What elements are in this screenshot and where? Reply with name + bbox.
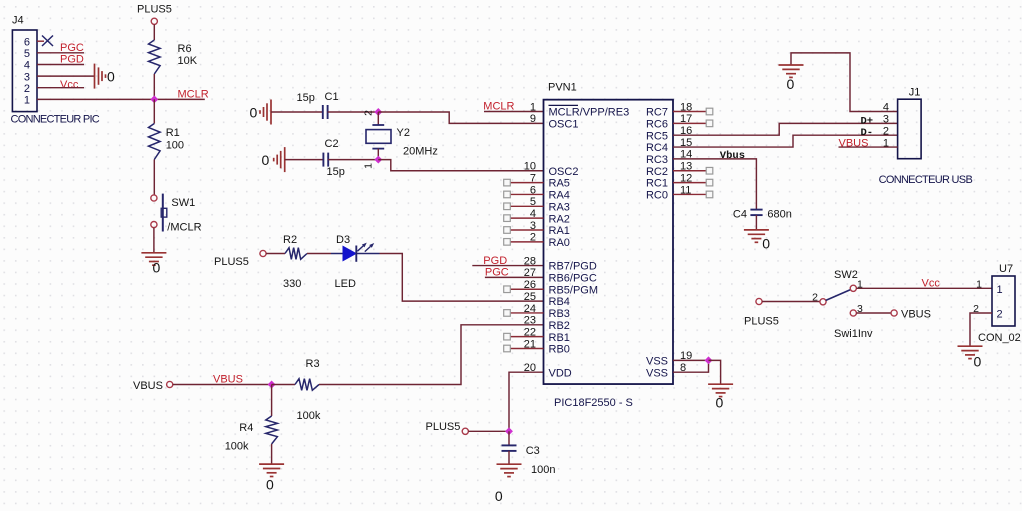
svg-text:D+: D+	[861, 115, 874, 127]
wire R3 to RB2 pin 23	[319, 325, 544, 385]
svg-text:OSC2: OSC2	[549, 166, 579, 178]
svg-text:15p: 15p	[327, 166, 345, 178]
wire PLUS5 to junction	[468, 430, 509, 432]
svg-text:SW2: SW2	[834, 269, 858, 281]
svg-text:PGC: PGC	[485, 267, 509, 279]
svg-text:R6: R6	[178, 43, 192, 55]
wire ground to C2	[285, 159, 324, 161]
svg-text:RC6: RC6	[646, 118, 668, 130]
svg-text:5: 5	[24, 48, 30, 60]
svg-text:PGD: PGD	[60, 54, 84, 66]
svg-text:VSS: VSS	[646, 367, 668, 379]
svg-text:RC2: RC2	[646, 166, 668, 178]
J4 pin 2 stub	[37, 87, 84, 89]
svg-text:LED: LED	[335, 278, 356, 290]
wire PLUS5 to SW2 pin 2	[762, 301, 820, 303]
node 2 junction (OSC1 net)	[374, 108, 382, 116]
ground at J1 shield	[779, 65, 804, 77]
J4 pin 5 wire (PGC)	[37, 52, 84, 54]
resistor R2	[285, 248, 307, 260]
svg-text:Vcc: Vcc	[60, 79, 79, 91]
svg-text:RC7: RC7	[646, 107, 668, 119]
svg-text:R2: R2	[283, 234, 297, 246]
svg-text:RB1: RB1	[549, 332, 570, 344]
unconnected pin 22 stub	[511, 336, 544, 338]
svg-text:PGD: PGD	[483, 255, 507, 267]
svg-text:RC0: RC0	[646, 190, 668, 202]
svg-text:Vbus: Vbus	[720, 150, 745, 162]
svg-text:4: 4	[883, 102, 889, 114]
svg-text:1: 1	[24, 95, 30, 107]
svg-text:VBUS: VBUS	[901, 308, 931, 320]
svg-text:RA5: RA5	[549, 178, 570, 190]
J4 pin 3 wire (Vcc)	[37, 75, 95, 77]
unconnected pin 3 stub	[511, 229, 544, 231]
ground below R4	[259, 464, 284, 476]
svg-text:0: 0	[762, 236, 770, 252]
connector J4 (CONNECTEUR PIC)	[11, 15, 100, 126]
LED D3	[331, 234, 380, 290]
IC PVN1 (PIC18F2550 - S)	[524, 82, 693, 410]
svg-text:U7: U7	[999, 263, 1013, 275]
capacitor C3	[502, 445, 517, 451]
svg-text:RB5/PGM: RB5/PGM	[549, 284, 599, 296]
unconnected pin 26 stub	[511, 288, 544, 290]
svg-text:1: 1	[530, 101, 536, 113]
wire PGC to pin 27	[485, 276, 544, 278]
svg-text:0: 0	[495, 488, 503, 504]
wire MCLR node to R1	[153, 99, 155, 123]
capacitor C1	[323, 105, 328, 119]
svg-text:RB6/PGC: RB6/PGC	[549, 273, 597, 285]
J4 pin 1 wire to MCLR node	[37, 98, 205, 100]
wire RC5 pin 16 to J1 pin 3 (D+)	[673, 123, 898, 135]
wire ground to J1 pin 4	[791, 53, 898, 112]
ground below C3	[497, 464, 522, 476]
unconnected pin 24 stub	[511, 312, 544, 314]
svg-text:PLUS5: PLUS5	[214, 256, 249, 268]
svg-text:4: 4	[24, 60, 30, 72]
ground on J4 pin 3	[95, 64, 106, 89]
wire junction to C3	[508, 431, 510, 445]
svg-text:10: 10	[524, 161, 536, 173]
svg-text:1: 1	[363, 163, 375, 169]
svg-text:2: 2	[24, 83, 30, 95]
svg-text:RC4: RC4	[646, 142, 668, 154]
connector U7 (CON_02)	[973, 263, 1021, 344]
unconnected pin 6 stub	[511, 193, 544, 195]
svg-text:CONNECTEUR USB: CONNECTEUR USB	[879, 174, 973, 186]
svg-text:0: 0	[153, 260, 161, 276]
svg-text:0: 0	[787, 76, 795, 92]
wire C4 to ground	[755, 215, 757, 230]
svg-text:RB4: RB4	[549, 296, 570, 308]
junction VDD/C3 node	[505, 427, 513, 435]
svg-text:OSC1: OSC1	[549, 118, 579, 130]
J4 pin 6 stub	[37, 40, 44, 42]
svg-text:PLUS5: PLUS5	[744, 316, 779, 328]
unconnected pin 17 stub	[673, 122, 706, 124]
wire PLUS5 to R2	[266, 253, 285, 255]
unconnected pin 11 stub	[673, 193, 706, 195]
svg-text:RC3: RC3	[646, 154, 668, 166]
svg-text:2: 2	[812, 292, 818, 304]
svg-text:PLUS5: PLUS5	[137, 4, 172, 16]
svg-text:VBUS: VBUS	[133, 380, 163, 392]
wire C1 to crystal node 2	[328, 111, 379, 113]
unconnected pin 18 stub	[673, 111, 706, 113]
svg-text:Y2: Y2	[397, 127, 410, 139]
wire U7 pin 2 to ground	[970, 313, 992, 346]
resistor R4	[266, 416, 278, 444]
svg-text:C3: C3	[526, 445, 540, 457]
capacitor C2	[323, 153, 328, 167]
resistor R3	[295, 379, 319, 391]
J4 pin 4 wire (PGD)	[37, 64, 84, 66]
svg-text:PGC: PGC	[60, 42, 84, 54]
svg-text:3: 3	[24, 71, 30, 83]
svg-text:RA4: RA4	[549, 190, 570, 202]
svg-text:100k: 100k	[297, 410, 321, 422]
resistor R1	[149, 124, 161, 160]
svg-text:0: 0	[107, 69, 115, 85]
svg-text:RB3: RB3	[549, 308, 570, 320]
switch SW2 (Swi1Inv)	[812, 269, 873, 340]
svg-text:MCLR: MCLR	[178, 89, 209, 101]
svg-text:CONNECTEUR PIC: CONNECTEUR PIC	[11, 114, 100, 126]
wire VSS junction to ground	[709, 360, 721, 383]
svg-text:2: 2	[997, 309, 1003, 321]
junction VBUS node	[268, 381, 276, 389]
svg-text:RC5: RC5	[646, 130, 668, 142]
wire VDD pin 20 to PLUS5 junction	[509, 372, 544, 431]
svg-text:0: 0	[250, 105, 258, 121]
unconnected pin 12 stub	[673, 182, 706, 184]
svg-text:R3: R3	[306, 358, 320, 370]
junction VSS node	[705, 356, 713, 364]
junction MCLR node	[150, 95, 158, 103]
wire R4 to ground	[271, 444, 273, 464]
svg-text:680n: 680n	[767, 209, 791, 221]
svg-text:0: 0	[266, 477, 274, 493]
wire SW2 pin 3 to VBUS terminal	[856, 312, 891, 314]
wire junction to R3	[272, 384, 295, 386]
svg-text:Vcc: Vcc	[922, 277, 941, 289]
svg-text:/MCLR: /MCLR	[167, 222, 201, 234]
wire PGD to pin 28	[472, 265, 543, 267]
svg-text:RA3: RA3	[549, 201, 570, 213]
capacitor C4	[750, 210, 762, 216]
svg-text:1: 1	[997, 284, 1003, 296]
crystal Y2	[366, 112, 438, 160]
svg-text:R1: R1	[166, 127, 180, 139]
terminal VBUS at SW2 pin 3	[891, 310, 897, 316]
svg-text:10K: 10K	[178, 55, 198, 67]
svg-text:23: 23	[524, 315, 536, 327]
svg-text:PVN1: PVN1	[548, 82, 577, 94]
wire RC3 pin 14 to C4 (Vbus)	[673, 159, 756, 209]
wire RC4 pin 15 to J1 pin 2 (D-)	[673, 135, 898, 147]
wire node1 to OSC2 pin 10	[378, 160, 543, 171]
svg-text:C1: C1	[325, 91, 339, 103]
svg-text:0: 0	[974, 354, 982, 370]
wire node2 to OSC1 pin 9	[378, 112, 543, 123]
svg-text:R4: R4	[239, 422, 253, 434]
svg-text:Swi1Inv: Swi1Inv	[834, 328, 873, 340]
svg-text:330: 330	[283, 278, 301, 290]
svg-text:0: 0	[716, 395, 724, 411]
svg-text:0: 0	[262, 152, 270, 168]
wire VBUS node to R4	[271, 385, 273, 417]
wire VBUS stub to J1 pin 1	[839, 146, 898, 148]
svg-text:27: 27	[524, 267, 536, 279]
unconnected pin 5 stub	[511, 205, 544, 207]
svg-text:J4: J4	[12, 15, 24, 27]
svg-text:100k: 100k	[225, 441, 249, 453]
svg-text:RA2: RA2	[549, 213, 570, 225]
svg-text:D3: D3	[336, 234, 350, 246]
svg-text:9: 9	[530, 113, 536, 125]
wire VBUS terminal to junction	[173, 384, 272, 386]
svg-text:SW1: SW1	[171, 197, 195, 209]
ground below SW1	[141, 253, 166, 265]
svg-text:15p: 15p	[297, 92, 315, 104]
svg-text:RC1: RC1	[646, 178, 668, 190]
svg-text:28: 28	[524, 255, 536, 267]
wire R2 to D3	[307, 253, 331, 255]
ground below C4	[744, 230, 769, 242]
svg-text:25: 25	[524, 291, 536, 303]
unconnected pin 13 stub	[673, 170, 706, 172]
unconnected pin 21 stub	[511, 348, 544, 350]
ground at U7	[958, 346, 983, 358]
wire R1 to SW1	[153, 160, 155, 195]
no-connect X on J4 pin 6	[42, 36, 53, 47]
svg-text:2: 2	[883, 125, 889, 137]
wire R6 to MCLR node	[153, 74, 155, 99]
svg-text:RA0: RA0	[549, 237, 570, 249]
svg-text:VSS: VSS	[646, 355, 668, 367]
node 1 junction (OSC2 net)	[374, 156, 382, 164]
wire VSS pin 19 to junction	[673, 359, 709, 361]
svg-text:J1: J1	[909, 87, 921, 99]
unconnected pin 7 stub	[511, 182, 544, 184]
svg-text:MCLR/VPP/RE3: MCLR/VPP/RE3	[549, 107, 630, 119]
wire SW2 pin 1 to U7 pin 1 (Vcc)	[856, 287, 992, 289]
svg-text:100: 100	[166, 140, 184, 152]
svg-text:C4: C4	[733, 209, 747, 221]
svg-text:CON_02: CON_02	[978, 332, 1021, 344]
svg-text:C2: C2	[325, 138, 339, 150]
svg-text:100n: 100n	[531, 464, 555, 476]
switch SW1 (/MCLR pushbutton)	[151, 194, 202, 234]
svg-text:6: 6	[24, 36, 30, 48]
svg-text:PLUS5: PLUS5	[426, 421, 461, 433]
svg-text:RB0: RB0	[549, 344, 570, 356]
svg-text:PIC18F2550 - S: PIC18F2550 - S	[554, 397, 633, 409]
svg-text:20MHz: 20MHz	[403, 146, 438, 158]
wire C2 to crystal node 1	[328, 159, 378, 161]
svg-text:VBUS: VBUS	[213, 374, 243, 386]
connector J1 (CONNECTEUR USB)	[879, 87, 973, 187]
wire MCLR to pin 1	[484, 111, 544, 113]
svg-text:VDD: VDD	[549, 367, 572, 379]
wire PLUS5 to R6	[153, 24, 155, 40]
ground at VSS	[708, 384, 733, 396]
svg-text:1: 1	[976, 279, 982, 291]
svg-text:3: 3	[883, 114, 889, 126]
svg-text:RB7/PGD: RB7/PGD	[549, 261, 597, 273]
resistor R6	[149, 40, 161, 74]
svg-text:RB2: RB2	[549, 320, 570, 332]
wire C3 to ground	[508, 451, 510, 464]
svg-text:2: 2	[363, 110, 375, 116]
wire ground to C1	[271, 111, 323, 113]
wire SW1 to ground	[153, 228, 155, 253]
svg-text:20: 20	[524, 362, 536, 374]
unconnected pin 4 stub	[511, 217, 544, 219]
svg-text:RA1: RA1	[549, 225, 570, 237]
wire D3 to RB4 pin 25	[380, 254, 544, 302]
unconnected pin 2 stub	[511, 241, 544, 243]
wire VSS pin 8 up to junction	[673, 360, 709, 372]
